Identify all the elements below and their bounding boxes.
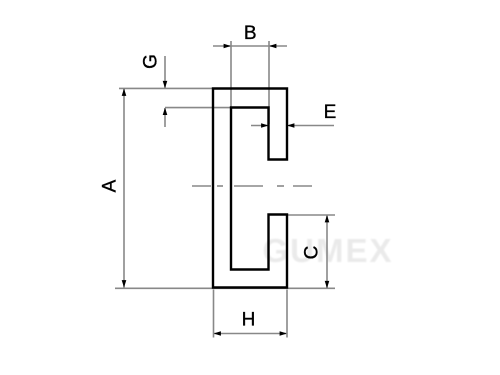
dimension H extension lines — [214, 290, 288, 338]
dimension B extension lines — [231, 41, 269, 124]
svg-text:E: E — [324, 102, 337, 123]
dimension E lines — [251, 123, 334, 128]
svg-text:GUMEX: GUMEX — [262, 232, 393, 269]
watermark GUMEX — [262, 232, 393, 269]
svg-text:H: H — [242, 310, 256, 331]
dimension C top extension line — [287, 214, 335, 216]
profile outline (C-shaped channel cross-section) — [213, 89, 287, 288]
dimension A line — [122, 89, 127, 288]
svg-text:B: B — [244, 23, 257, 44]
dimension A bottom extension line — [115, 287, 335, 289]
centerline (horizontal axis) — [192, 185, 312, 187]
svg-text:C: C — [302, 246, 323, 260]
dimension C line — [325, 215, 330, 288]
dimension B line — [213, 44, 287, 49]
svg-text:G: G — [141, 54, 162, 69]
dimension G extension lines — [119, 88, 231, 107]
dimension G lines — [163, 56, 168, 127]
svg-text:A: A — [100, 179, 121, 192]
dimension H line — [214, 331, 288, 336]
